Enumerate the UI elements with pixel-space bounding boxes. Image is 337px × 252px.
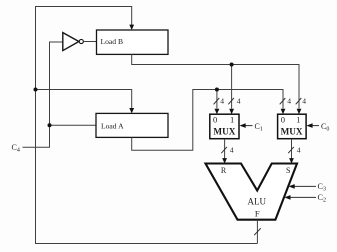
signal C0 arrow into right MUX select: [306, 122, 329, 133]
bus width slash 4 on right MUX input 0: [280, 97, 292, 106]
svg-text:0: 0: [281, 115, 285, 125]
svg-text:0: 0: [213, 115, 217, 125]
svg-text:4: 4: [220, 97, 224, 106]
svg-text:ALU: ALU: [248, 196, 267, 206]
ALU U3: [206, 164, 298, 220]
bus width slash on F output: [254, 228, 261, 235]
svg-text:4: 4: [287, 97, 291, 106]
wire inverter output to Load B enable: [84, 41, 97, 43]
svg-text:1: 1: [296, 115, 300, 125]
arrowhead into left MUX input 1: [229, 109, 234, 114]
svg-text:S: S: [286, 166, 290, 175]
bus width slash 4 on S input: [288, 146, 301, 155]
arrowhead into Load B top: [129, 25, 134, 30]
bus width slash 4 on left MUX input 0: [214, 97, 225, 106]
junction on left vertical at Load A branch: [34, 88, 38, 92]
bus width slash 4 on left MUX input 1: [228, 97, 241, 106]
bus width slash 4 on right MUX input 1: [296, 97, 307, 106]
signal C1 arrow into left MUX select: [240, 122, 263, 133]
svg-text:Load A: Load A: [101, 122, 124, 131]
wire branch down to left MUX "1" input: [231, 65, 233, 109]
junction on Load B bus at left MUX branch: [230, 63, 234, 67]
wire left MUX output to ALU R input: [224, 139, 226, 159]
svg-text:4: 4: [237, 97, 241, 106]
svg-text:4: 4: [297, 146, 301, 155]
svg-text:R: R: [221, 166, 227, 175]
wire C4 branch to Load A enable: [50, 124, 97, 126]
wire branch to Load A data input: [36, 90, 132, 109]
svg-text:Load B: Load B: [101, 37, 124, 46]
wire branch down to left MUX "0" input: [216, 90, 218, 109]
signal C3 arrow into ALU: [289, 182, 327, 193]
arrowhead into Load A top: [129, 108, 134, 113]
signal C2 arrow into ALU: [284, 193, 326, 204]
arrowhead into ALU R: [222, 158, 227, 163]
junction on C4 stem at Load A enable branch: [48, 123, 52, 127]
wire Load B output bus to MUX "1" inputs: [132, 54, 299, 108]
svg-text:1: 1: [230, 115, 234, 125]
svg-text:F: F: [255, 209, 260, 219]
arrowhead into left MUX input 0: [215, 109, 220, 114]
svg-text:4: 4: [302, 97, 306, 106]
wire right MUX output to ALU S input: [291, 139, 293, 159]
junction on Load A bus at left MUX branch: [215, 88, 219, 92]
svg-text:MUX: MUX: [281, 127, 303, 137]
wire F feedback: bottom run, left vertical, top run into Load B: [36, 7, 258, 244]
inverter (NOT gate): [63, 33, 84, 51]
register Load A: [96, 113, 168, 137]
register Load B: [97, 30, 169, 54]
arrowhead into ALU S: [289, 158, 294, 163]
svg-text:4: 4: [230, 146, 234, 155]
mux U2 (right MUX): [278, 114, 307, 139]
mux U1 (left MUX): [210, 114, 239, 139]
bus width slash 4 on R input: [221, 146, 234, 155]
wire ALU F output down to feedback bus: [256, 220, 258, 244]
arrowhead into right MUX input 0: [281, 109, 286, 114]
arrowhead into right MUX input 1: [297, 109, 302, 114]
wire C4 stem up to inverter input: [23, 42, 63, 147]
svg-text:MUX: MUX: [213, 127, 235, 137]
wire Load A output bus to MUX "0" inputs: [132, 90, 283, 151]
